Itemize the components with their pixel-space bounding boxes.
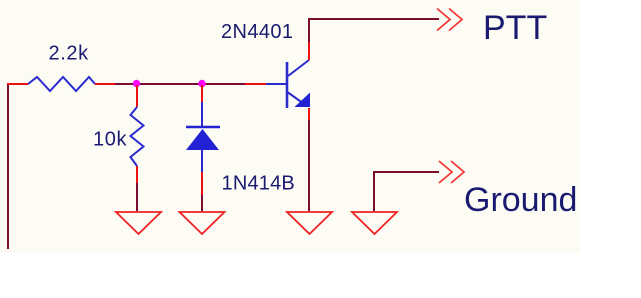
connector chevron Ground [439, 161, 452, 183]
wire left vertical [7, 84, 9, 249]
connector chevron PTT [437, 9, 450, 31]
svg-text:2.2k: 2.2k [49, 43, 90, 65]
diode D1 body [186, 129, 219, 150]
wire maroon node A to node B [115, 83, 245, 85]
svg-text:10k: 10k [93, 129, 127, 151]
transistor Q1 collector diagonal [288, 60, 309, 76]
ground G4 [352, 212, 397, 234]
transistor Q1 emitter diagonal [288, 93, 302, 103]
wire maroon emitter to ground G3 [308, 120, 310, 211]
transistor Q1 emitter arrow [295, 93, 311, 108]
wire blue below diode [201, 150, 203, 172]
diode D1 cathode bar [186, 126, 220, 129]
wire maroon to ground G1 [136, 183, 138, 211]
wire red collector stub [308, 42, 310, 60]
wire base blue [266, 83, 287, 85]
wire maroon collector to PTT [309, 19, 439, 42]
ground G1 [116, 212, 161, 234]
wire blue to diode [201, 102, 203, 127]
wire left stub red [7, 83, 28, 85]
node A junction dot [133, 80, 140, 87]
wire red below R2 [136, 166, 138, 183]
svg-text:1N414B: 1N414B [222, 172, 295, 194]
schematic background [0, 0, 580, 253]
svg-text:2N4401: 2N4401 [221, 21, 293, 43]
wire red R1 to node A [95, 83, 115, 85]
node B junction dot [198, 80, 205, 87]
transistor Q1 base bar [286, 62, 289, 108]
resistor R2 10k [131, 107, 144, 166]
svg-text:Ground: Ground [464, 181, 577, 219]
wire red node B down [201, 85, 203, 102]
svg-text:PTT: PTT [483, 9, 547, 47]
ground G2 [180, 212, 225, 234]
wire red node A down [136, 85, 138, 107]
resistor R1 2.2k [28, 77, 95, 91]
wire red below diode [201, 172, 203, 195]
wire maroon ground net [374, 172, 439, 211]
wire red emitter stub [308, 108, 310, 120]
wire red to base [245, 83, 266, 85]
ground G3 [287, 212, 332, 234]
wire maroon to ground G2 [201, 195, 203, 211]
